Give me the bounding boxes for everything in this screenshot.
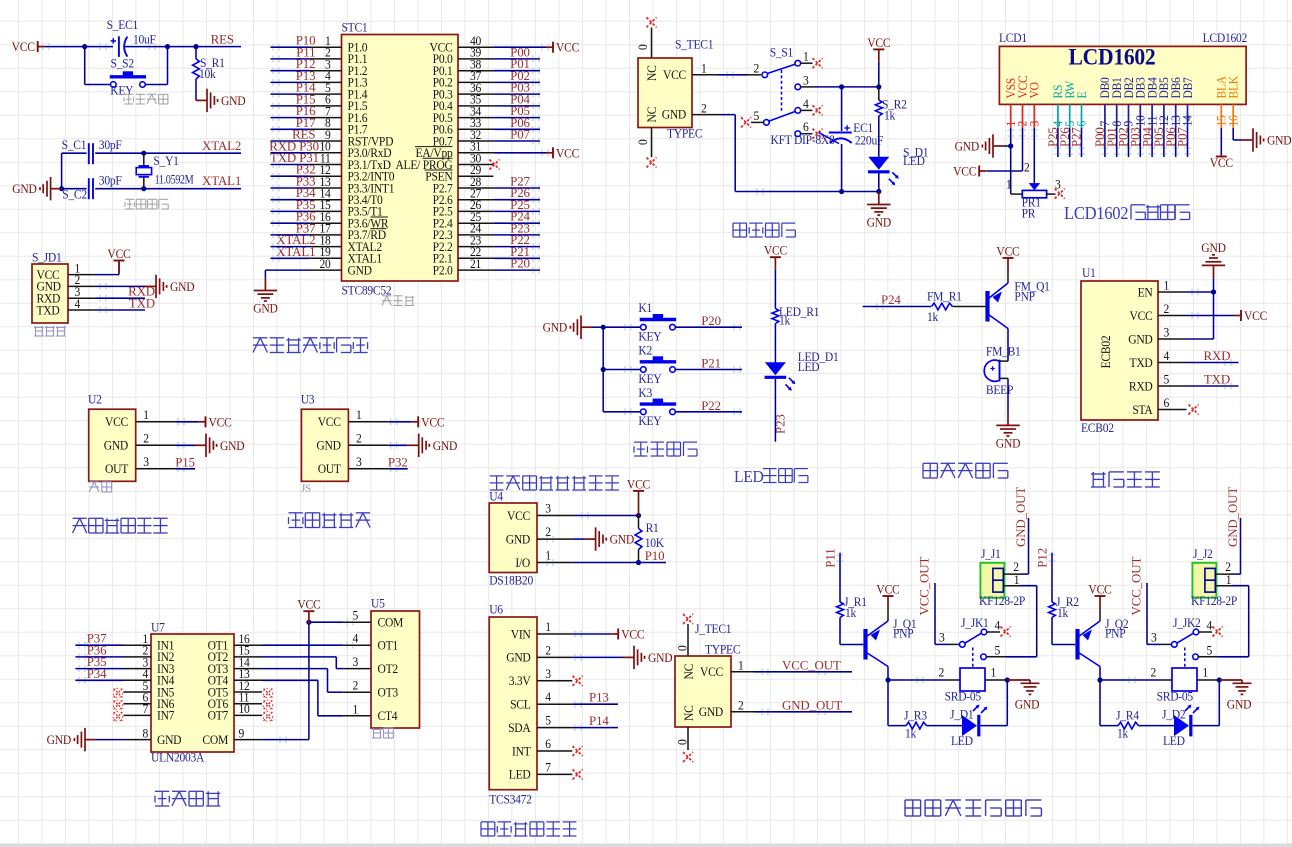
svg-text:3: 3 [545,501,551,516]
svg-text:1: 1 [1006,177,1012,192]
svg-text:GND: GND [348,263,373,278]
svg-text:3: 3 [803,73,809,88]
svg-text:GND: GND [47,733,72,748]
svg-text:KFT DIP-8X8: KFT DIP-8X8 [771,133,835,148]
svg-text:GND: GND [662,107,687,122]
svg-text:NC: NC [681,664,696,680]
svg-text:KF128-2P: KF128-2P [979,594,1026,609]
svg-text:1k: 1k [779,313,791,328]
svg-text:3: 3 [352,655,358,670]
svg-text:GND: GND [610,532,635,547]
svg-text:COM: COM [378,615,404,630]
svg-text:GND_OUT: GND_OUT [782,698,842,712]
svg-text:TXD: TXD [129,297,155,311]
svg-text:LED: LED [798,359,820,374]
svg-text:J_J2: J_J2 [1193,547,1213,562]
svg-text:XTAL1: XTAL1 [202,174,241,188]
svg-text:U2: U2 [88,392,102,407]
svg-text:0: 0 [636,44,651,50]
svg-text:VCC: VCC [209,415,232,430]
svg-text:1: 1 [352,702,358,717]
svg-text:CT4: CT4 [378,709,398,724]
svg-text:VCC: VCC [867,35,890,50]
svg-text:11.0592M: 11.0592M [155,174,194,187]
svg-text:5: 5 [1164,372,1170,387]
svg-text:R1: R1 [646,521,659,536]
svg-text:GND: GND [220,438,245,453]
svg-text:VCC_OUT: VCC_OUT [918,557,932,616]
svg-text:VCC: VCC [318,415,341,430]
svg-text:GND: GND [253,301,278,316]
svg-text:5: 5 [545,713,551,728]
svg-text:VCC: VCC [556,40,579,55]
svg-text:J_JK2: J_JK2 [1173,616,1201,631]
svg-text:SDA: SDA [508,720,531,735]
svg-text:1: 1 [738,658,744,673]
svg-text:J_R3: J_R3 [904,708,927,723]
svg-text:IN7: IN7 [157,708,174,723]
svg-text:STA: STA [1132,402,1153,417]
svg-text:P20: P20 [510,257,530,271]
svg-text:XTAL1: XTAL1 [276,245,315,259]
svg-text:TXD: TXD [37,303,61,318]
svg-text:VCC: VCC [12,40,35,55]
svg-text:S_C2: S_C2 [62,187,87,202]
svg-text:PR: PR [1022,206,1037,221]
svg-text:1: 1 [1226,573,1232,588]
svg-text:S_Y1: S_Y1 [153,154,179,169]
svg-text:3: 3 [939,630,945,645]
svg-text:TYPEC: TYPEC [705,642,741,657]
svg-text:10k: 10k [199,67,217,82]
svg-text:P10: P10 [645,549,665,563]
svg-text:P14: P14 [589,714,609,728]
svg-text:1: 1 [545,548,551,563]
svg-text:1: 1 [356,407,362,422]
svg-text:GND: GND [433,438,458,453]
svg-text:SRD-05: SRD-05 [1157,689,1194,704]
svg-text:10uF: 10uF [133,32,156,47]
svg-text:1k: 1k [905,726,917,741]
svg-text:GND: GND [996,436,1021,451]
svg-text:VCC: VCC [953,164,976,179]
svg-text:0: 0 [636,139,651,145]
svg-text:S_C1: S_C1 [62,137,87,152]
svg-text:1k: 1k [927,310,939,325]
svg-text:8: 8 [142,726,148,741]
svg-text:ECB02: ECB02 [1099,335,1114,368]
svg-text:P07: P07 [1176,127,1190,147]
svg-text:2: 2 [938,665,944,680]
svg-text:S_JD1: S_JD1 [32,250,62,265]
svg-text:10: 10 [239,702,250,717]
svg-text:J_D2: J_D2 [1162,707,1186,722]
svg-text:9: 9 [239,726,245,741]
svg-text:BLK: BLK [1226,76,1241,99]
svg-text:P07: P07 [510,128,530,142]
svg-text:2: 2 [701,101,707,116]
svg-text:2: 2 [352,678,358,693]
svg-text:INT: INT [512,744,531,759]
svg-text:VCC: VCC [107,247,130,262]
svg-text:KEY: KEY [638,414,662,429]
svg-text:VCC: VCC [627,477,650,492]
svg-text:3: 3 [545,666,551,681]
svg-text:2: 2 [356,431,362,446]
svg-text:NC: NC [644,107,659,123]
svg-text:K2: K2 [638,343,652,358]
svg-text:VCC_OUT: VCC_OUT [1130,557,1144,616]
svg-text:J_J1: J_J1 [981,547,1001,562]
svg-text:P27: P27 [1070,127,1084,147]
svg-text:NC: NC [681,705,696,721]
svg-text:30pF: 30pF [99,173,122,188]
svg-text:GND: GND [699,705,724,720]
svg-text:TXD: TXD [1204,373,1230,387]
svg-text:2: 2 [545,525,551,540]
svg-text:LED: LED [509,767,531,782]
svg-text:1k: 1k [845,605,857,620]
svg-text:3: 3 [356,454,362,469]
svg-text:K1: K1 [638,301,652,316]
svg-text:GND: GND [867,215,892,230]
svg-text:GND: GND [1227,697,1252,712]
svg-text:TXD: TXD [1130,355,1154,370]
svg-text:2: 2 [1164,302,1170,317]
svg-text:J_D1: J_D1 [950,707,974,722]
svg-text:2: 2 [143,431,149,446]
svg-text:U7: U7 [151,620,165,635]
svg-text:LED: LED [734,466,764,486]
svg-text:K3: K3 [638,385,652,400]
svg-text:STC1: STC1 [342,20,368,35]
svg-text:U3: U3 [301,392,315,407]
svg-text:30pF: 30pF [99,137,122,152]
svg-text:S_S1: S_S1 [770,45,794,60]
svg-text:VIN: VIN [511,627,531,642]
svg-text:GND: GND [12,182,37,197]
svg-text:RXD: RXD [1204,349,1231,363]
svg-text:1: 1 [991,665,997,680]
svg-text:4: 4 [545,690,551,705]
svg-text:VCC: VCC [421,415,444,430]
svg-text:6: 6 [1164,396,1170,411]
svg-text:S_EC1: S_EC1 [107,17,139,32]
svg-text:4: 4 [803,96,809,111]
svg-text:DS18B20: DS18B20 [489,573,533,588]
svg-text:LCD1602: LCD1602 [1069,44,1156,70]
svg-text:GND: GND [1015,697,1040,712]
svg-text:1: 1 [545,620,551,635]
svg-text:GND: GND [170,279,195,294]
svg-text:5: 5 [1207,643,1213,658]
svg-text:XTAL2: XTAL2 [202,139,241,153]
svg-text:GND: GND [543,320,568,335]
svg-text:VCC: VCC [876,582,899,597]
svg-text:P2.0: P2.0 [433,263,453,278]
svg-text:U1: U1 [1082,266,1096,281]
svg-text:GND: GND [506,650,531,665]
svg-text:GND_OUT: GND_OUT [1014,487,1028,547]
svg-text:PNP: PNP [1014,289,1035,304]
svg-text:4: 4 [1164,349,1170,364]
svg-text:J_JK1: J_JK1 [961,616,989,631]
svg-text:VCC_OUT: VCC_OUT [782,658,841,672]
svg-text:2: 2 [1150,665,1156,680]
svg-text:20: 20 [319,256,330,271]
svg-text:GND: GND [104,438,129,453]
svg-text:GND: GND [157,732,182,747]
svg-text:VCC: VCC [507,508,530,523]
svg-text:VCC: VCC [621,627,644,642]
svg-text:21: 21 [470,256,481,271]
svg-text:OUT: OUT [105,462,129,477]
svg-text:KF128-2P: KF128-2P [1191,594,1238,609]
svg-text:LCD1: LCD1 [999,31,1027,46]
svg-text:LED: LED [1163,734,1185,749]
svg-text:VCC: VCC [1210,156,1233,171]
svg-text:PNP: PNP [1105,626,1126,641]
svg-text:3: 3 [1055,177,1061,192]
svg-text:FM_B1: FM_B1 [986,344,1021,359]
svg-text:DB7: DB7 [1180,77,1195,98]
svg-text:VCC: VCC [996,244,1019,259]
svg-text:0: 0 [675,645,690,651]
svg-text:JS: JS [301,483,311,495]
svg-text:4: 4 [74,296,80,311]
svg-text:2: 2 [545,643,551,658]
svg-text:J_R4: J_R4 [1116,708,1139,723]
svg-text:4: 4 [1207,618,1213,633]
svg-text:1: 1 [1203,665,1209,680]
svg-text:LCD1602: LCD1602 [1064,203,1128,223]
svg-text:OT1: OT1 [378,638,399,653]
svg-text:GND: GND [955,139,980,154]
svg-text:6: 6 [545,737,551,752]
svg-text:SRD-05: SRD-05 [945,689,982,704]
svg-text:0: 0 [675,739,690,745]
svg-text:1k: 1k [1117,726,1129,741]
svg-text:GND: GND [506,532,531,547]
svg-text:U6: U6 [489,602,503,617]
svg-text:7: 7 [545,760,551,775]
svg-text:1: 1 [1164,278,1170,293]
svg-text:1k: 1k [1057,605,1069,620]
svg-text:P22: P22 [701,399,721,413]
svg-text:E: E [1074,92,1089,99]
svg-text:LED: LED [951,734,973,749]
svg-text:SCL: SCL [510,697,530,712]
svg-text:RES: RES [211,33,234,47]
svg-text:P11: P11 [824,548,838,567]
svg-text:VCC: VCC [764,243,787,258]
svg-text:VO: VO [1027,82,1042,99]
svg-text:PNP: PNP [893,626,914,641]
svg-text:VCC: VCC [700,665,723,680]
svg-text:3.3V: 3.3V [509,674,531,689]
svg-text:P24: P24 [881,293,901,307]
svg-text:KEY: KEY [638,371,662,386]
svg-text:P34: P34 [87,667,107,681]
svg-text:ECB02: ECB02 [1081,421,1114,436]
svg-text:GND_OUT: GND_OUT [1226,487,1240,547]
svg-text:2: 2 [738,698,744,713]
svg-text:OUT: OUT [318,462,342,477]
svg-text:J_TEC1: J_TEC1 [695,622,732,637]
svg-text:1k: 1k [884,108,896,123]
svg-text:4: 4 [995,618,1001,633]
svg-text:KEY: KEY [110,83,134,98]
svg-text:2: 2 [753,61,759,76]
svg-text:ULN2003A: ULN2003A [151,750,205,765]
svg-text:GND: GND [1267,133,1292,148]
svg-text:OT7: OT7 [208,708,229,723]
svg-text:GND: GND [648,650,673,665]
svg-text:P21: P21 [701,357,721,371]
svg-text:3: 3 [1151,630,1157,645]
svg-text:KEY: KEY [638,329,662,344]
svg-text:S_TEC1: S_TEC1 [675,37,713,52]
svg-text:S_S2: S_S2 [111,56,135,71]
svg-text:P20: P20 [701,314,721,328]
svg-text:1: 1 [1014,573,1020,588]
svg-text:VCC: VCC [1088,582,1111,597]
svg-text:5: 5 [995,643,1001,658]
svg-text:P12: P12 [1036,548,1050,568]
svg-text:3: 3 [143,454,149,469]
svg-text:I/O: I/O [515,555,530,570]
svg-text:GND: GND [221,93,246,108]
svg-text:1: 1 [143,407,149,422]
svg-text:VCC: VCC [297,597,320,612]
svg-text:COM: COM [202,732,228,747]
svg-text:VCC: VCC [663,67,686,82]
svg-text:7: 7 [142,702,148,717]
svg-text:GND: GND [316,438,341,453]
svg-text:OT2: OT2 [378,661,399,676]
svg-text:VCC: VCC [1130,308,1153,323]
svg-text:5: 5 [753,109,759,124]
svg-text:1: 1 [803,49,809,64]
svg-text:FM_R1: FM_R1 [927,289,962,304]
svg-text:U4: U4 [489,489,503,504]
svg-text:EN: EN [1138,285,1153,300]
svg-text:LCD1602: LCD1602 [1203,31,1248,46]
svg-text:1: 1 [701,61,707,76]
svg-text:RXD: RXD [1129,379,1153,394]
svg-text:VCC: VCC [1244,309,1267,324]
svg-text:VCC: VCC [105,415,128,430]
svg-text:GND: GND [1128,332,1153,347]
svg-text:3: 3 [1164,325,1170,340]
svg-text:2: 2 [1024,160,1030,175]
svg-text:BEEP: BEEP [986,382,1014,397]
svg-text:VCC: VCC [556,146,579,161]
svg-text:NC: NC [644,65,659,81]
svg-text:GND: GND [1201,240,1226,255]
svg-text:TYPEC: TYPEC [667,126,703,141]
svg-text:P23: P23 [773,414,787,434]
svg-text:P13: P13 [589,691,609,705]
svg-text:LED: LED [903,153,925,168]
svg-text:OT3: OT3 [378,685,399,700]
svg-text:TCS3472: TCS3472 [489,792,532,807]
svg-text:U5: U5 [371,596,385,611]
